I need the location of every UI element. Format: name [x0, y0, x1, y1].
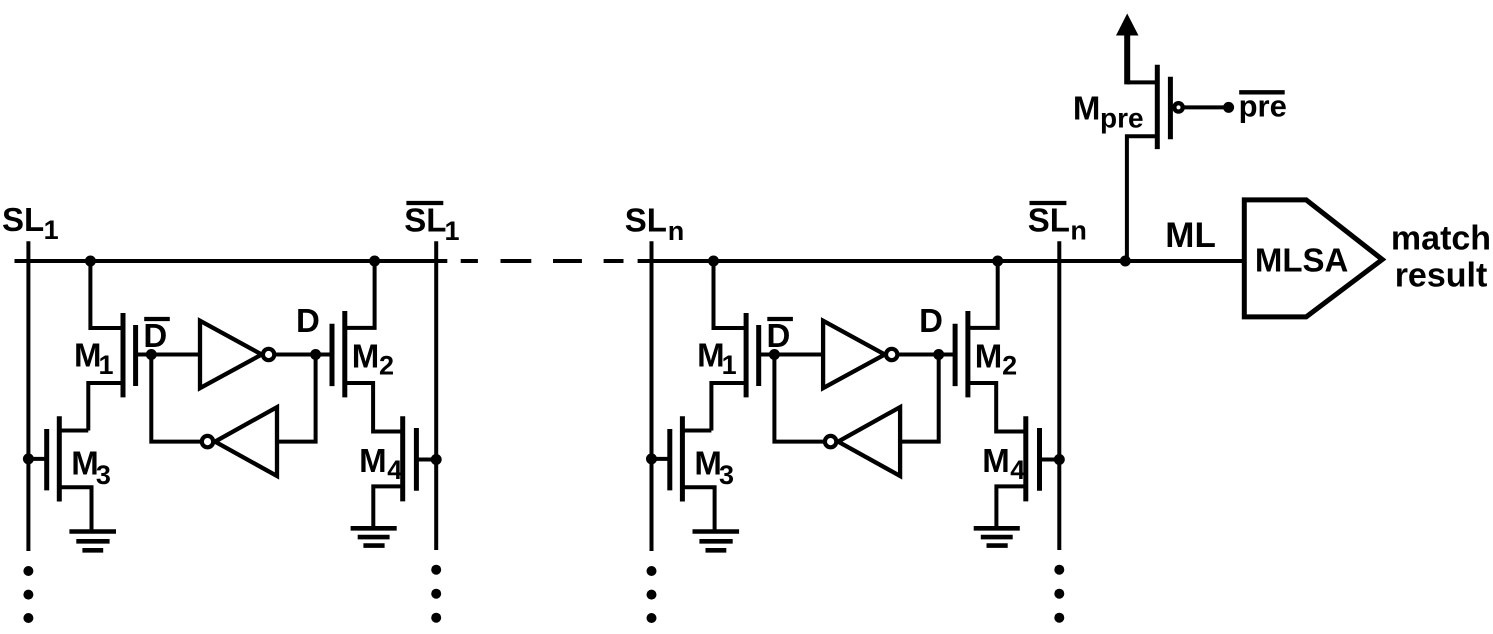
svg-text:SL: SL: [404, 202, 446, 239]
svg-text:1: 1: [445, 216, 460, 246]
svg-text:n: n: [668, 216, 685, 246]
svg-text:pre: pre: [1100, 102, 1144, 133]
svg-text:3: 3: [96, 460, 111, 490]
svg-text:SL: SL: [1028, 202, 1070, 239]
svg-text:result: result: [1395, 256, 1488, 294]
svg-text:ML: ML: [1165, 216, 1216, 255]
svg-text:M: M: [74, 336, 102, 373]
svg-text:SL: SL: [625, 202, 667, 239]
svg-text:2: 2: [379, 351, 394, 381]
svg-text:pre: pre: [1239, 88, 1287, 123]
svg-text:1: 1: [44, 215, 59, 245]
svg-text:D: D: [296, 302, 320, 339]
svg-text:SL: SL: [2, 201, 44, 238]
svg-text:n: n: [1070, 216, 1087, 246]
svg-text:match: match: [1391, 220, 1491, 258]
svg-text:D: D: [143, 317, 167, 354]
svg-text:1: 1: [99, 350, 114, 380]
svg-text:4: 4: [387, 455, 402, 485]
svg-text:M: M: [71, 445, 99, 482]
svg-text:M: M: [352, 338, 380, 375]
svg-text:MLSA: MLSA: [1255, 242, 1349, 279]
svg-text:M: M: [359, 442, 387, 479]
svg-text:M: M: [1073, 89, 1101, 126]
